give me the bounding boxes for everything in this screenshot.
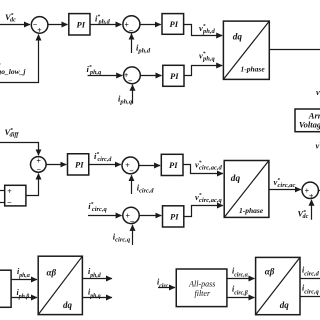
svg-text:filter: filter — [195, 289, 211, 298]
svg-text:icirc,α: icirc,α — [232, 266, 249, 278]
svg-text:i*ph,q: i*ph,q — [87, 64, 102, 76]
svg-text:icirc: icirc — [157, 277, 169, 289]
svg-text:1-phase: 1-phase — [241, 64, 266, 73]
svg-text:+: + — [37, 26, 42, 35]
svg-text:PI: PI — [169, 160, 178, 170]
svg-text:v*ph,q: v*ph,q — [199, 50, 216, 62]
svg-text:V*dc: V*dc — [5, 12, 16, 24]
svg-text:v*circ,ac,q: v*circ,ac,q — [195, 192, 223, 204]
svg-text:icirc,β: icirc,β — [232, 284, 248, 296]
svg-text:v*: v* — [316, 140, 320, 151]
svg-text:i*circ,q: i*circ,q — [88, 201, 107, 213]
svg-text:v*circ,ac,d: v*circ,ac,d — [195, 159, 223, 171]
svg-text:All-pass: All-pass — [188, 280, 215, 289]
svg-text:−: − — [128, 77, 133, 86]
svg-text:1-phase: 1-phase — [239, 206, 264, 215]
svg-text:αβ: αβ — [47, 267, 57, 277]
svg-text:icirc,d: icirc,d — [302, 265, 320, 277]
svg-text:dq: dq — [233, 32, 243, 42]
svg-text:icirc,q: icirc,q — [113, 232, 131, 244]
svg-text:iph,q: iph,q — [118, 94, 133, 106]
svg-text:v*: v* — [316, 86, 320, 97]
svg-text:v*circ,ac: v*circ,ac — [274, 177, 296, 189]
svg-text:PI: PI — [75, 160, 84, 170]
svg-text:+: + — [36, 156, 41, 165]
svg-text:−: − — [36, 165, 41, 174]
svg-text:iph,β: iph,β — [17, 288, 30, 300]
svg-text:iph,q: iph,q — [88, 288, 101, 300]
svg-text:iph,d: iph,d — [136, 43, 151, 55]
svg-text:i*circ,d: i*circ,d — [94, 151, 112, 163]
svg-text:PI: PI — [170, 212, 179, 222]
svg-text:−: − — [129, 26, 134, 35]
svg-text:+: + — [309, 192, 314, 201]
svg-text:PI: PI — [170, 71, 179, 81]
svg-text:dq: dq — [280, 300, 290, 310]
svg-text:PI: PI — [77, 20, 86, 30]
svg-text:iph,α: iph,α — [17, 267, 31, 279]
svg-text:icirc,d: icirc,d — [137, 183, 155, 195]
svg-text:v*ph,d: v*ph,d — [199, 23, 216, 35]
svg-text:αβ: αβ — [265, 267, 275, 277]
svg-text:iph,d: iph,d — [88, 267, 101, 279]
svg-text:Voltage: Voltage — [299, 119, 320, 129]
svg-text:−: − — [130, 217, 135, 226]
svg-text:V*diff: V*diff — [5, 127, 20, 139]
svg-text:i*ph,d: i*ph,d — [95, 13, 111, 25]
svg-text:dq: dq — [63, 300, 73, 310]
svg-text:icirc,q: icirc,q — [302, 283, 319, 295]
svg-text:v*go_low_j: v*go_low_j — [0, 62, 26, 76]
svg-text:−: − — [129, 167, 134, 176]
svg-text:V*dc: V*dc — [298, 209, 309, 221]
svg-text:−: − — [7, 198, 12, 207]
svg-text:PI: PI — [170, 19, 179, 29]
svg-text:+: + — [7, 187, 12, 196]
svg-text:dq: dq — [231, 174, 241, 184]
